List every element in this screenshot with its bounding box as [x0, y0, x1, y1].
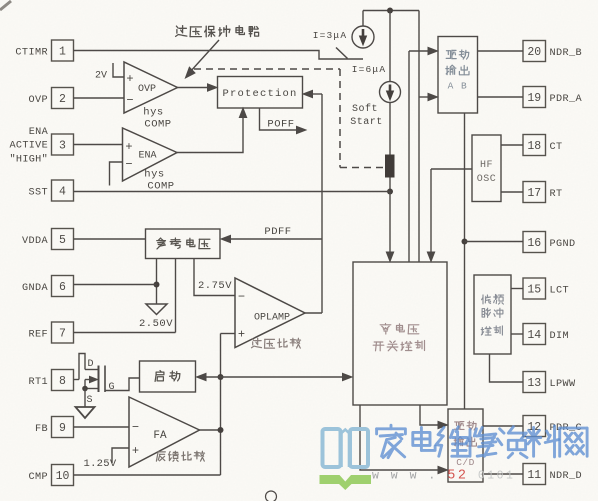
label overvoltage compare 过压比较: [252, 338, 262, 348]
svg-text:GNDA: GNDA: [22, 283, 49, 294]
dashed horizontal to soft-start bar: [340, 167, 385, 169]
pin 11 box (NDR_D): [523, 464, 546, 485]
block driver output A B 驱动输出AB: [438, 37, 478, 114]
block low frequency pulse control 低频脉冲控制: [474, 275, 511, 354]
wire reference to ground 2.50V: [156, 259, 158, 304]
block HF OSC: [472, 135, 501, 202]
svg-text:9: 9: [59, 422, 66, 435]
svg-text:ACTIVE: ACTIVE: [10, 141, 48, 152]
watermark book icon: [323, 429, 369, 467]
svg-text:FB: FB: [35, 424, 48, 435]
svg-text:10: 10: [56, 470, 70, 483]
pin 13 box (LPWW): [523, 372, 546, 393]
wire OVP output to Protection: [178, 87, 210, 89]
wire driver CD to pin12 PDR_C: [483, 425, 523, 427]
pin 5 box (VDDA): [52, 229, 74, 250]
svg-text:CTIMR: CTIMR: [15, 47, 48, 58]
node dot FA output: [218, 427, 224, 433]
wire zero-voltage block to driver CD lower input: [360, 405, 441, 470]
POFF output wire: [260, 108, 299, 130]
svg-text:CT: CT: [550, 142, 563, 153]
svg-text:8: 8: [59, 375, 66, 388]
svg-text:hys: hys: [144, 169, 164, 181]
wire rail to I=6uA source: [389, 11, 391, 82]
svg-text:+: +: [125, 140, 132, 154]
label feedback compare 反馈比较: [156, 452, 165, 461]
svg-text:7: 7: [59, 328, 66, 341]
svg-text:VDDA: VDDA: [22, 236, 49, 247]
wire MOSFET source to ground: [84, 389, 86, 407]
wire rail to I=3uA source: [362, 11, 364, 27]
pin 18 box (CT): [523, 135, 546, 156]
svg-text:1: 1: [59, 46, 66, 59]
op-amp ENA comparator triangle: [123, 128, 178, 181]
label overvoltage protection circuit 过压保护电路: [176, 26, 187, 37]
dashed vertical soft-start boundary: [339, 69, 341, 168]
wire ENA output to Protection bottom: [177, 112, 243, 153]
wire OPLAMP + input from FA net: [221, 333, 236, 335]
svg-text:A B: A B: [448, 81, 468, 92]
wire HF OSC to pin18 CT: [501, 144, 523, 146]
ground symbol 2.50V: [146, 304, 167, 315]
wire FA output to node: [200, 429, 221, 431]
wire SST node to zero-voltage block: [389, 192, 391, 258]
svg-text:FA: FA: [153, 430, 167, 442]
wire driver AB to pin20 NDR_B: [478, 50, 524, 52]
svg-text:11: 11: [527, 469, 541, 482]
svg-text:19: 19: [527, 92, 541, 105]
pin 9 box (FB): [52, 417, 74, 438]
svg-text:NDR_D: NDR_D: [550, 471, 583, 482]
svg-text:HF: HF: [480, 160, 493, 171]
svg-text:2: 2: [59, 93, 66, 106]
vertical bus driver AB bottom to driver CD: [464, 113, 466, 409]
svg-text:4: 4: [59, 186, 66, 199]
svg-text:ENA: ENA: [138, 151, 156, 162]
vertical bus lower from rail: [418, 11, 420, 262]
wire low-freq block to pin13 LPWW: [490, 354, 524, 382]
pin 4 box (SST): [52, 180, 74, 201]
svg-text:C/D: C/D: [456, 457, 475, 468]
PGND node dot: [462, 239, 468, 245]
svg-text:−: −: [238, 290, 245, 304]
bus wire to driver AB upper input: [409, 50, 431, 52]
svg-text:2V: 2V: [95, 71, 107, 82]
wire pin4 SST: [74, 191, 391, 193]
op-amp FA comparator triangle: [129, 397, 200, 467]
vertical net FA output / startup / OPLAMP+: [220, 334, 222, 476]
svg-text:LCT: LCT: [550, 285, 570, 296]
svg-text:14: 14: [527, 329, 541, 342]
SST node dot: [387, 189, 393, 195]
pin 2 box (OVP): [52, 88, 74, 109]
svg-text:Protection: Protection: [222, 88, 297, 100]
current source I=3uA circle: [352, 26, 374, 48]
svg-text:3: 3: [59, 140, 66, 153]
svg-text:PGND: PGND: [550, 239, 576, 250]
svg-text:"HIGH": "HIGH": [10, 154, 48, 166]
svg-text:5: 5: [59, 234, 66, 247]
block zero voltage switch control 零电压开关控制: [353, 262, 447, 405]
svg-text:−: −: [125, 158, 132, 172]
svg-text:OVP: OVP: [28, 95, 48, 106]
svg-text:OSC: OSC: [477, 174, 497, 185]
pin 16 box (PGND): [523, 232, 546, 253]
svg-text:w w w . 52 0101: w w w . 52 0101: [372, 469, 515, 484]
svg-text:COMP: COMP: [147, 181, 174, 193]
svg-text:15: 15: [527, 284, 541, 297]
op-amp OPLAMP comparator triangle: [235, 278, 305, 348]
svg-text:SST: SST: [28, 187, 48, 198]
svg-text:S: S: [86, 395, 92, 406]
svg-text:REF: REF: [28, 329, 48, 340]
svg-text:17: 17: [527, 187, 541, 200]
svg-text:2.50V: 2.50V: [139, 318, 173, 330]
ENA - input elbow wire: [110, 162, 123, 186]
svg-text:LPWW: LPWW: [550, 379, 577, 390]
svg-text:+: +: [126, 72, 133, 86]
wire pin9 FB to FA - input: [74, 426, 130, 428]
pin 6 box (GNDA): [52, 276, 74, 297]
svg-text:+: +: [132, 444, 139, 458]
wire driver AB to pin19 PDR_A: [478, 96, 524, 98]
watermark text 家电维修资料网: [377, 425, 406, 457]
ground symbol at MOSFET source: [76, 407, 95, 418]
wire HF OSC to pin17 RT: [501, 191, 523, 193]
wire zero-voltage block to driver CD upper input: [420, 405, 441, 425]
node dot on rail: [387, 8, 393, 14]
block startup 启动: [140, 361, 196, 392]
svg-text:G: G: [108, 382, 114, 393]
wire reference 2.75V to OPLAMP - input: [194, 259, 235, 296]
svg-text:1.25V: 1.25V: [83, 458, 116, 470]
svg-text:D: D: [87, 359, 93, 370]
pin 17 box (RT): [523, 182, 546, 203]
svg-text:−: −: [126, 94, 133, 108]
vertical bus upper: [408, 51, 410, 262]
pin 3 box (ENA): [52, 134, 74, 155]
wire PDFF to reference block: [229, 238, 322, 240]
wire pin10 CMP to FA output node: [74, 474, 221, 476]
wire to startup block: [204, 376, 221, 378]
figure number circle bottom: [266, 491, 277, 501]
wire PGND node to pin16: [465, 241, 524, 243]
block Protection: [218, 77, 303, 109]
bus wire to driver AB lower input: [419, 96, 431, 98]
pointer arrow from label to OVP output node: [190, 40, 220, 73]
svg-text:13: 13: [527, 377, 541, 390]
pin 14 box (DIM): [523, 324, 546, 345]
svg-text:OVP: OVP: [138, 84, 156, 95]
wire pin1 CTIMR to switch: [74, 51, 364, 60]
wire I=6uA to bar: [389, 103, 391, 155]
svg-text:PDFF: PDFF: [264, 226, 291, 238]
wire HF OSC input bus: [431, 168, 472, 170]
svg-text:+: +: [238, 328, 245, 342]
svg-text:CMP: CMP: [28, 472, 48, 483]
block driver output C D 驱动输出C/D: [448, 409, 483, 482]
svg-text:2.75V: 2.75V: [198, 280, 232, 292]
wire low-freq block to pin15 LCT: [511, 288, 523, 290]
wire reference to REF pin7: [175, 259, 177, 333]
vertical bus HF OSC to zero-voltage block: [430, 169, 432, 258]
pin 1 box (CTIMR): [52, 40, 74, 61]
svg-text:RT1: RT1: [28, 377, 48, 388]
pin 15 box (LCT): [523, 278, 546, 299]
wire Protection right input from OPLAMP: [311, 93, 322, 95]
svg-text:COMP: COMP: [144, 119, 171, 131]
2V elbow wire to OVP + input: [113, 63, 124, 77]
current source I=6uA circle: [380, 82, 401, 103]
svg-text:6: 6: [59, 281, 66, 294]
vertical wire OPLAMP output up to Protection: [321, 94, 323, 313]
svg-text:OPLAMP: OPLAMP: [254, 313, 290, 324]
op-amp OVP comparator triangle: [124, 62, 178, 113]
pin 8 box (RT1): [52, 370, 74, 391]
svg-text:DIM: DIM: [550, 331, 570, 342]
wire pin6 GNDA: [74, 284, 157, 286]
wire pin3 ENA + input: [74, 144, 123, 146]
wire low-freq block to pin14 DIM: [511, 333, 523, 335]
transistor Q1 MOSFET at RT1: [74, 379, 80, 381]
svg-text:RT: RT: [550, 189, 563, 200]
pin 19 box (PDR_A): [523, 87, 546, 108]
wire driver CD to pin11 NDR_D: [483, 473, 523, 475]
soft-start capacitor bar: [385, 155, 395, 178]
dashed line from OVP output: [194, 68, 340, 70]
node dot startup net: [218, 374, 224, 380]
block reference voltage 参考电压: [146, 229, 221, 259]
wire pin2 OVP - input: [74, 97, 125, 99]
1.25V reference elbow: [112, 448, 129, 463]
scan artifact top-left corner: [0, 1, 11, 10]
svg-text:I=6μA: I=6μA: [352, 64, 387, 75]
GNDA node dot: [154, 282, 160, 288]
pin 20 box (NDR_B): [523, 41, 546, 62]
wire pin5 VDDA to reference block: [74, 238, 146, 240]
pin 12 box (PDR_C): [523, 416, 546, 437]
svg-text:NDR_B: NDR_B: [550, 48, 583, 59]
svg-text:18: 18: [527, 140, 541, 153]
svg-text:hys: hys: [143, 107, 163, 119]
svg-text:ENA: ENA: [29, 127, 49, 138]
svg-text:PDR_A: PDR_A: [550, 94, 583, 105]
svg-text:Start: Start: [350, 117, 383, 128]
pin 10 box (CMP): [52, 465, 74, 486]
svg-text:Soft: Soft: [352, 103, 378, 115]
svg-text:20: 20: [527, 46, 541, 59]
switch blade: [336, 48, 348, 59]
svg-text:−: −: [132, 421, 139, 435]
pin 7 box (REF): [52, 322, 74, 343]
wire net to zero-voltage block input: [221, 376, 345, 378]
svg-text:I=3μA: I=3μA: [313, 30, 348, 41]
top supply rail: [363, 10, 419, 12]
svg-text:POFF: POFF: [267, 119, 294, 131]
wire bar to SST node: [389, 178, 391, 192]
svg-text:16: 16: [527, 237, 541, 250]
wire gate to startup block: [105, 378, 140, 391]
wire OPLAMP output: [305, 312, 322, 314]
